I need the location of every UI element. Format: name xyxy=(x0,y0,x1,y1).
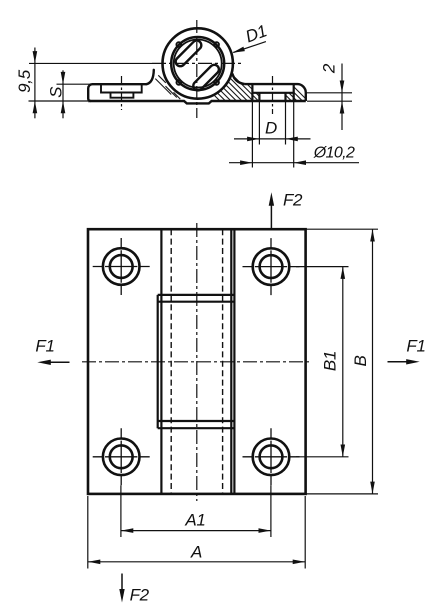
hatch left of knuckle base xyxy=(155,75,180,99)
svg-text:F1: F1 xyxy=(35,337,54,356)
dimension A1 xyxy=(121,485,271,537)
force arrow F1 left xyxy=(49,361,70,363)
counterbore ledge xyxy=(252,92,293,94)
middle knuckle segment left wall xyxy=(157,295,159,428)
dimension 9,5 xyxy=(29,48,89,119)
dimension D xyxy=(234,101,311,145)
dimension 2 xyxy=(307,64,352,131)
knuckle inner ring 2 xyxy=(174,40,222,88)
svg-text:A1: A1 xyxy=(184,510,205,529)
left knuckle fillet xyxy=(146,70,154,84)
horizontal centerline of knuckle / 9,5 extension xyxy=(29,62,152,64)
dimension B xyxy=(306,229,378,494)
svg-text:F2: F2 xyxy=(283,190,303,209)
svg-text:D: D xyxy=(265,118,277,137)
hole top-left xyxy=(103,248,140,285)
knuckle hidden line right xyxy=(222,229,224,494)
knuckle column left edge xyxy=(160,229,162,494)
left leaf outline xyxy=(88,84,146,101)
knuckle hidden line left xyxy=(170,229,172,494)
hatch right knuckle base and sectioned right leaf xyxy=(189,70,309,102)
bottom edge with centre boss xyxy=(88,101,306,103)
right knuckle fillet xyxy=(232,74,244,85)
dimension Ø10,2 xyxy=(229,101,359,168)
svg-text:Ø10,2: Ø10,2 xyxy=(313,145,355,162)
knuckle outer circle xyxy=(163,28,233,98)
force arrow F1 right xyxy=(388,361,409,363)
plate outline xyxy=(88,229,306,494)
svg-text:D1: D1 xyxy=(243,21,269,46)
knuckle column inner right line xyxy=(230,229,232,494)
middle segment bottom band xyxy=(158,421,235,428)
dimension S xyxy=(57,70,92,118)
label D1 with leader xyxy=(233,42,266,53)
svg-text:9,5: 9,5 xyxy=(15,69,34,93)
knuckle column right edge xyxy=(233,229,235,494)
right leaf outline (sectioned) xyxy=(245,84,306,101)
right leaf hole centerline xyxy=(272,76,274,114)
knuckle column centerline xyxy=(196,223,198,501)
horizontal centerline F1 axis xyxy=(82,361,312,363)
knuckle inner ring xyxy=(171,37,224,90)
hole D walls xyxy=(259,93,285,101)
force arrow F2 bottom xyxy=(121,574,123,592)
dimension B1 xyxy=(296,267,349,457)
svg-text:A: A xyxy=(190,542,202,561)
svg-text:F2: F2 xyxy=(130,586,150,605)
svg-text:S: S xyxy=(46,86,65,98)
svg-text:F1: F1 xyxy=(406,336,425,355)
hole bottom-right xyxy=(253,439,290,476)
svg-text:2: 2 xyxy=(319,63,338,74)
svg-text:B1: B1 xyxy=(320,351,339,371)
dimension A xyxy=(88,496,305,569)
counterbore Ø10,2 walls xyxy=(252,84,293,101)
hole top-right xyxy=(253,248,290,285)
hole bottom-left xyxy=(103,439,140,476)
slot upper-left in knuckle xyxy=(174,39,203,68)
vertical centerline of knuckle xyxy=(196,20,198,118)
slot lower-right in knuckle xyxy=(191,63,220,92)
left leaf hole centerline xyxy=(121,76,123,110)
four corner dots in knuckle xyxy=(176,42,219,85)
force arrow F2 top xyxy=(270,204,272,229)
middle segment top band xyxy=(158,295,235,302)
left leaf recess step xyxy=(101,84,142,98)
svg-text:B: B xyxy=(351,355,370,366)
